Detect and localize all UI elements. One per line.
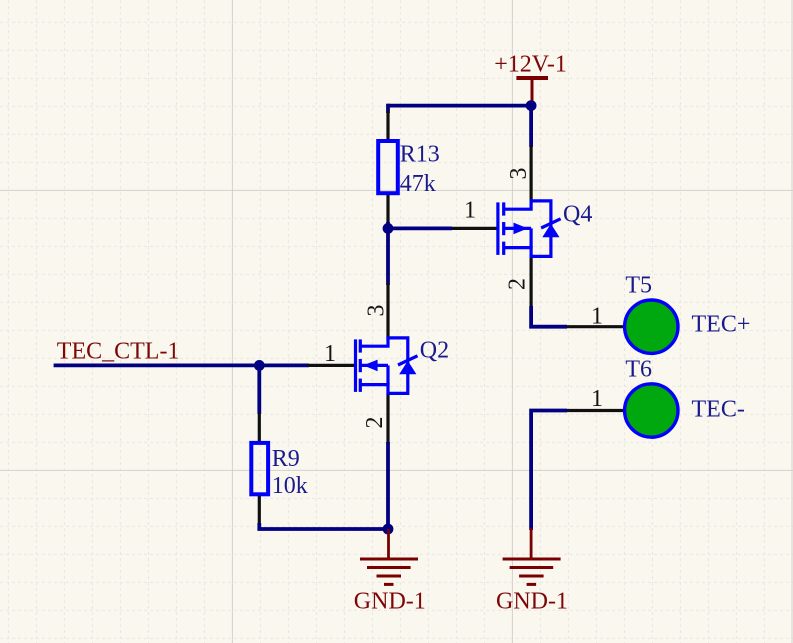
resistor R13 (378, 111, 398, 224)
junction at Q4 gate node (383, 223, 394, 234)
wire Q2 source down to ground node (386, 442, 390, 529)
wire gate node down to Q2 drain (386, 228, 390, 285)
svg-text:R9: R9 (272, 446, 300, 472)
wire TEC_CTL-1 horizontal (54, 363, 309, 367)
svg-text:1: 1 (464, 198, 476, 224)
pin 1 (gate) of Q4 (452, 227, 497, 230)
wire top rail left drop (386, 104, 390, 113)
svg-text:3: 3 (364, 305, 390, 317)
svg-text:GND-1: GND-1 (496, 589, 568, 615)
svg-text:TEC-: TEC- (692, 397, 745, 423)
svg-text:R13: R13 (400, 142, 440, 168)
junction at +12V node (526, 100, 537, 111)
svg-text:T5: T5 (625, 273, 652, 299)
pin 3 of Q2 (386, 283, 389, 340)
svg-text:GND-1: GND-1 (354, 589, 426, 615)
svg-text:1: 1 (324, 341, 336, 367)
pin 1 (gate) of Q2 (308, 364, 355, 367)
wire R9 bottom to ground node (259, 523, 388, 529)
wire Q4 source to T5 (531, 306, 567, 327)
test point T5 (567, 300, 678, 353)
test point T6 (567, 384, 678, 437)
wire gate node to Q4 gate (388, 226, 452, 230)
svg-text:Q4: Q4 (563, 202, 592, 228)
svg-text:47k: 47k (400, 171, 436, 197)
svg-text:1: 1 (591, 386, 603, 412)
pin 3 of Q4 (529, 146, 532, 203)
transistor Q4 (452, 146, 561, 308)
ground GND-1 under Q2 (360, 529, 418, 584)
junction at R9 top node (254, 360, 265, 371)
wire from +12V node down to Q4 (529, 106, 533, 147)
svg-text:+12V-1: +12V-1 (494, 51, 567, 77)
svg-text:TEC+: TEC+ (692, 312, 751, 338)
svg-text:10k: 10k (272, 473, 308, 499)
wire top rail horizontal (388, 104, 531, 108)
svg-text:2: 2 (362, 417, 388, 429)
power symbol +12V-1 (516, 78, 548, 106)
svg-text:1: 1 (591, 303, 603, 329)
svg-text:Q2: Q2 (420, 338, 449, 364)
svg-text:T6: T6 (625, 357, 652, 383)
svg-text:2: 2 (505, 278, 531, 290)
ground GND-1 under T6 (503, 528, 561, 584)
wire down to R9 (257, 365, 261, 414)
svg-text:3: 3 (506, 168, 532, 180)
pin 2 of Q4 (529, 256, 532, 308)
wire T6 to corner and down to ground (531, 411, 567, 531)
resistor R9 (251, 413, 268, 525)
transistor Q2 (308, 283, 418, 444)
pin 2 of Q2 (386, 393, 389, 444)
junction at ground node (383, 524, 394, 535)
svg-text:TEC_CTL-1: TEC_CTL-1 (57, 339, 180, 365)
wire R13 bottom to junction (386, 222, 390, 230)
